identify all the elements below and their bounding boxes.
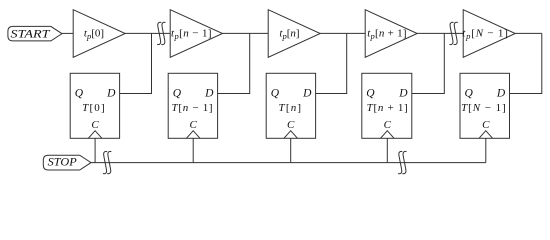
clock branch FF5 [485,138,487,162]
wire U5 out to corner [515,32,542,34]
svg-text:START: START [11,28,52,41]
flip-flop T4 box [362,73,412,138]
clock distribution wire [91,162,486,164]
wire U2 out to U3 [223,32,269,34]
clock branch FF3 [290,138,292,162]
svg-text:D: D [106,88,116,100]
clock edge wedge FF4 [381,131,395,139]
break squiggle on wire U4-U5 [449,22,457,44]
svg-text:T[N − 1]: T[N − 1] [461,102,507,114]
flip-flop T2 box [168,73,217,138]
wire tap 4 down to FF4 D [412,33,445,93]
svg-text:C: C [384,119,392,131]
svg-text:C: C [287,119,295,131]
svg-text:T[0]: T[0] [82,102,106,114]
buffer U4 [365,10,417,58]
buffer U2 [170,10,222,58]
buffer U5 [463,10,515,58]
clock branch FF4 [386,138,388,162]
break squiggle on clock wire left [103,151,111,173]
wire tap 5 down to FF5 D [509,33,541,93]
clock edge wedge FF2 [186,131,200,139]
clock edge wedge FF5 [479,131,493,139]
svg-text:tp[0]: tp[0] [84,27,104,41]
svg-text:Q: Q [173,88,182,100]
svg-text:T[n + 1]: T[n + 1] [367,102,409,114]
wire START to buffer U1 [62,32,73,34]
svg-text:Q: Q [75,88,84,100]
clock branch FF1 [94,138,96,162]
buffer U3 [268,10,320,58]
clock edge wedge FF3 [284,131,298,139]
node START input [8,26,62,41]
wire tap 3 down to FF3 D [316,33,347,93]
buffer U1 [73,10,125,58]
svg-text:D: D [302,88,312,100]
wire U1 out to U2 [125,32,170,34]
wire U4 out to U5 [417,32,463,34]
svg-text:tp[n]: tp[n] [279,27,299,41]
svg-text:C: C [91,119,99,131]
break squiggle on clock wire right [398,151,406,173]
flip-flop T5 box [460,73,510,138]
clock branch FF2 [192,138,194,162]
flip-flop T3 box [266,73,315,138]
svg-text:T[n]: T[n] [279,102,303,114]
flip-flop T1 box [70,73,119,138]
svg-text:Q: Q [465,88,474,100]
wire tap 2 down to FF2 D [218,33,250,93]
svg-text:C: C [482,119,490,131]
clock edge wedge FF1 [88,131,102,139]
node STOP input [43,155,91,170]
svg-text:T[n − 1]: T[n − 1] [172,102,214,114]
svg-text:STOP: STOP [48,156,77,169]
svg-text:D: D [398,88,408,100]
svg-text:D: D [204,88,214,100]
svg-text:Q: Q [366,88,375,100]
wire tap 1 down to FF1 D [120,33,152,93]
svg-text:D: D [496,88,506,100]
break squiggle on wire U1-U2 [157,22,165,44]
svg-text:Q: Q [271,88,280,100]
wire U3 out to U4 [320,32,365,34]
svg-text:C: C [190,119,198,131]
